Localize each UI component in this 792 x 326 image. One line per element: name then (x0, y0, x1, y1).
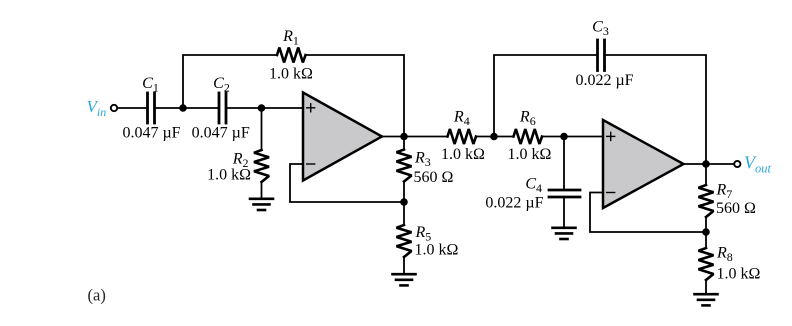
svg-text:C2: C2 (213, 75, 230, 95)
svg-text:1.0 kΩ: 1.0 kΩ (415, 242, 459, 259)
junction node H (702, 228, 710, 236)
junction node B (258, 104, 266, 112)
wire node A to C2 (183, 107, 218, 109)
junction node A (179, 104, 187, 112)
svg-text:1.0 kΩ: 1.0 kΩ (717, 266, 761, 283)
ground (C4) (553, 228, 576, 239)
wire U1 output to node C (382, 136, 404, 138)
resistor R3 (403, 137, 405, 203)
wire node E up to C3 (494, 55, 596, 137)
svg-text:C4: C4 (525, 176, 542, 196)
wire U2 output to node G (684, 163, 707, 165)
junction node C (400, 133, 408, 141)
svg-text:Vout: Vout (744, 153, 772, 176)
resistor R5 (403, 202, 405, 274)
junction node G (702, 160, 710, 168)
pin − (U1) (307, 163, 315, 165)
junction node E (490, 133, 498, 141)
wire Vin terminal to C1 (118, 107, 146, 109)
svg-text:1.0 kΩ: 1.0 kΩ (508, 146, 552, 163)
wire node G to Vout terminal (706, 163, 733, 165)
svg-text:C1: C1 (142, 75, 159, 95)
svg-text:0.022 µF: 0.022 µF (485, 195, 543, 212)
resistor R1 (277, 48, 306, 63)
ground (R2) (250, 199, 273, 210)
junction node D (400, 198, 408, 206)
svg-text:R4: R4 (453, 109, 470, 129)
resistor R8 (705, 232, 707, 294)
wire node F to U2 + input (564, 136, 603, 138)
wire node A up to R1 rail (183, 55, 277, 108)
wire node B to U1 + input (262, 107, 304, 109)
svg-text:560 Ω: 560 Ω (716, 200, 756, 217)
svg-text:R1: R1 (282, 28, 299, 48)
svg-text:R7: R7 (716, 182, 733, 202)
svg-text:0.047 µF: 0.047 µF (192, 125, 250, 142)
svg-text:1.0 kΩ: 1.0 kΩ (441, 146, 485, 163)
wire C2 to node B (227, 107, 261, 109)
pin + (U2) (607, 132, 615, 140)
pin + (U1) (307, 104, 315, 112)
capacitor C1 (148, 93, 155, 123)
svg-text:R3: R3 (414, 150, 431, 170)
wire R1 to node C (306, 55, 405, 137)
input terminal Vin (111, 105, 117, 111)
svg-text:R6: R6 (519, 109, 536, 129)
svg-text:(a): (a) (88, 286, 106, 305)
svg-text:0.022 µF: 0.022 µF (575, 72, 633, 89)
capacitor C3 (598, 40, 605, 71)
wire U2 feedback (590, 193, 706, 233)
junction node F (560, 133, 568, 141)
op-amp U2 (603, 120, 684, 208)
pin − (U2) (607, 192, 615, 194)
svg-text:560 Ω: 560 Ω (414, 169, 454, 186)
ground (R8) (695, 294, 718, 305)
resistor R2 (261, 108, 263, 199)
resistor R7 (705, 164, 707, 232)
svg-text:R8: R8 (716, 245, 733, 265)
op-amp U1 (303, 93, 382, 181)
wire C3 to node G (606, 55, 706, 164)
svg-text:1.0 kΩ: 1.0 kΩ (207, 167, 251, 184)
resistor R6 (494, 136, 564, 138)
output terminal Vout (734, 161, 740, 167)
capacitor C2 (219, 93, 226, 123)
resistor R4 (404, 136, 494, 138)
svg-text:C3: C3 (592, 19, 609, 39)
ground (R5) (393, 274, 416, 285)
wire U1 feedback (290, 164, 404, 202)
capacitor C4 (563, 137, 565, 189)
wire C1 to node A (156, 107, 183, 109)
svg-text:Vin: Vin (87, 97, 107, 119)
svg-text:0.047 µF: 0.047 µF (122, 125, 180, 142)
svg-text:1.0 kΩ: 1.0 kΩ (269, 66, 313, 83)
